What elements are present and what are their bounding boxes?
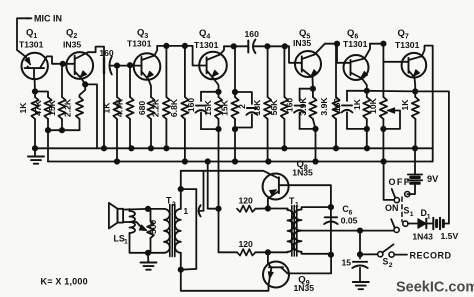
svg-text:9V: 9V: [427, 174, 439, 184]
svg-text:T1301: T1301: [127, 39, 152, 49]
svg-text:2.2K: 2.2K: [63, 98, 73, 117]
svg-text:K= X 1,000: K= X 1,000: [41, 277, 88, 287]
svg-text:6.8K: 6.8K: [169, 98, 179, 117]
svg-text:RECORD: RECORD: [410, 250, 452, 260]
svg-text:SeekIC.com: SeekIC.com: [396, 280, 474, 296]
svg-text:1K: 1K: [18, 102, 28, 114]
svg-text:160: 160: [186, 98, 196, 113]
svg-text:56K: 56K: [269, 99, 279, 116]
svg-text:3.9K: 3.9K: [298, 97, 308, 116]
svg-text:1N35: 1N35: [292, 168, 313, 178]
svg-text:MIC IN: MIC IN: [34, 14, 62, 24]
svg-text:T1301: T1301: [194, 40, 219, 50]
svg-text:160: 160: [332, 98, 342, 113]
svg-text:160: 160: [99, 48, 114, 58]
svg-text:IN35: IN35: [293, 38, 311, 48]
svg-text:15K: 15K: [203, 99, 213, 116]
svg-text:1: 1: [410, 211, 414, 218]
svg-text:15: 15: [342, 257, 352, 267]
svg-text:2: 2: [389, 262, 393, 269]
svg-text:1K: 1K: [400, 99, 410, 111]
svg-text:120: 120: [239, 239, 254, 249]
svg-text:T1301: T1301: [343, 39, 368, 49]
svg-text:S: S: [404, 206, 410, 216]
svg-text:1K: 1K: [102, 102, 112, 114]
svg-text:1: 1: [427, 214, 431, 221]
svg-text:3.9K: 3.9K: [319, 97, 329, 116]
svg-text:47K: 47K: [33, 99, 43, 116]
svg-text:0.05: 0.05: [341, 216, 358, 226]
svg-text:160: 160: [285, 98, 295, 113]
svg-text:1N35: 1N35: [294, 283, 315, 293]
svg-text:15K: 15K: [47, 99, 57, 116]
svg-text:1.5V: 1.5V: [441, 231, 459, 241]
svg-text:OFF: OFF: [389, 177, 411, 187]
svg-text:T1301: T1301: [395, 40, 420, 50]
svg-text:10K: 10K: [368, 97, 378, 114]
svg-text:120: 120: [239, 196, 254, 206]
svg-text:160: 160: [245, 29, 260, 39]
svg-text:S: S: [383, 257, 389, 267]
svg-text:1N43: 1N43: [412, 232, 433, 242]
svg-text:4.7K: 4.7K: [115, 98, 125, 117]
svg-text:1: 1: [124, 239, 128, 246]
svg-text:1: 1: [184, 207, 189, 216]
svg-text:18K: 18K: [252, 99, 262, 116]
svg-text:2: 2: [237, 104, 247, 109]
svg-text:ON: ON: [385, 203, 399, 213]
svg-text:680: 680: [137, 101, 147, 116]
svg-text:2.2K: 2.2K: [151, 98, 161, 117]
svg-text:IN35: IN35: [63, 40, 81, 50]
svg-text:1K: 1K: [352, 98, 362, 110]
svg-text:T1301: T1301: [19, 40, 44, 50]
svg-text:15K: 15K: [220, 99, 230, 116]
svg-text:500: 500: [148, 220, 158, 235]
